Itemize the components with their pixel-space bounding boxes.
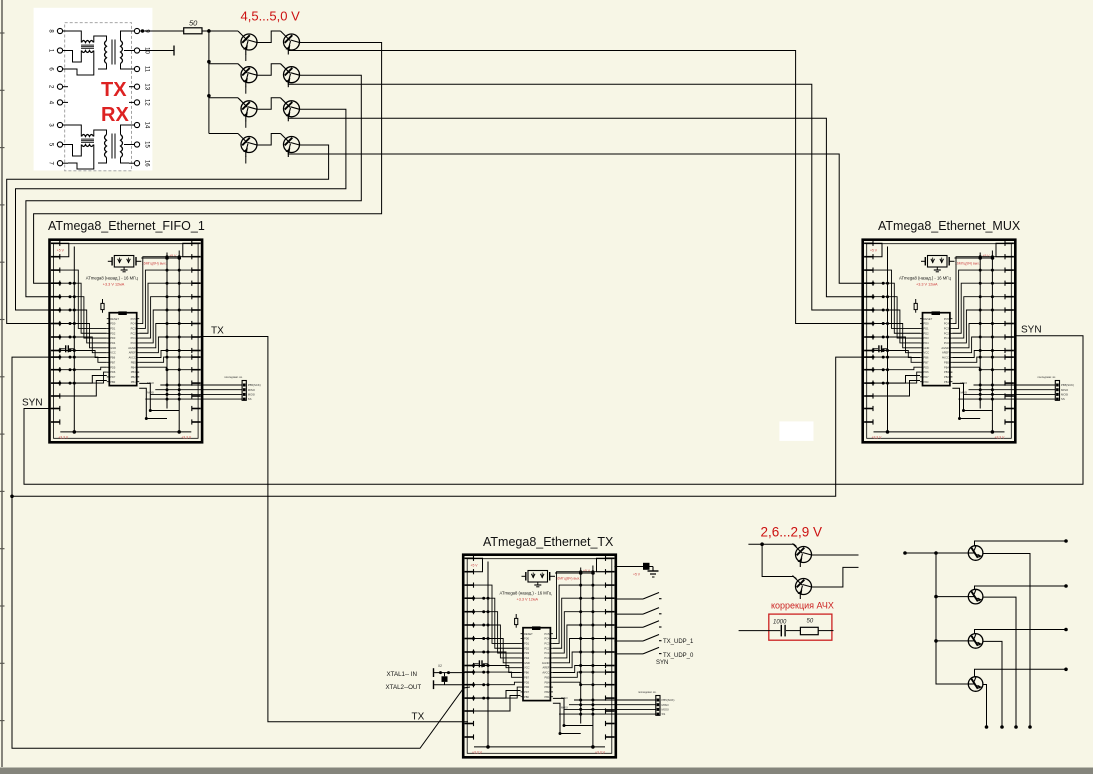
- wire pin9 to resistor: [140, 29, 184, 32]
- wire feed row 4: [209, 133, 238, 135]
- transformer coils: [105, 134, 123, 159]
- wire pair link row 1: [257, 31, 281, 43]
- transistor Q14: [968, 677, 983, 692]
- svg-text:RX: RX: [101, 104, 129, 126]
- switch S1: [614, 593, 661, 600]
- transformer wiring: [68, 31, 129, 75]
- svg-text:13: 13: [144, 83, 150, 90]
- TX reset button + ground: [614, 563, 658, 577]
- wire row 3 to MUX: [288, 117, 870, 297]
- svg-text:коррекция АЧХ: коррекция АЧХ: [771, 601, 834, 611]
- wire collector Q11: [975, 539, 1068, 546]
- transistor Q13: [968, 634, 983, 649]
- svg-text:4,5...5,0 V: 4,5...5,0 V: [241, 9, 301, 24]
- sheet frame left border: [0, 0, 5, 767]
- svg-text:TX: TX: [101, 79, 127, 101]
- resistor R2: [800, 627, 818, 634]
- transformer coils: [105, 40, 123, 65]
- net SYN1 FIFO to MUX: [24, 336, 1083, 485]
- label 50 R2: [807, 619, 814, 625]
- module ATmega8_Ethernet_FIFO_1: [48, 219, 261, 442]
- label 1000: [773, 620, 787, 626]
- wire base Q13: [936, 640, 968, 642]
- wire feed row 3: [209, 97, 238, 99]
- wire cap to resistor: [786, 630, 800, 632]
- switch S3: [614, 621, 661, 628]
- label SYN at FIFO: [22, 398, 43, 409]
- transistor Q2: [281, 31, 300, 55]
- wire resistor to node: [202, 30, 209, 32]
- transformer pin numbers right: [144, 29, 150, 167]
- label XTAL2 OUT: [386, 684, 422, 691]
- wire out of box: [818, 630, 833, 632]
- bottom scrollbar: [0, 768, 1093, 774]
- svg-text:+5 V: +5 V: [633, 573, 641, 577]
- svg-text:15: 15: [144, 141, 150, 148]
- svg-text:TX: TX: [412, 712, 425, 723]
- svg-text:1000: 1000: [773, 620, 787, 626]
- svg-text:16: 16: [144, 160, 150, 167]
- resistor R1: [184, 28, 202, 34]
- correction box (red): [769, 614, 832, 640]
- wire pair link row 2: [257, 64, 281, 75]
- transistor Q3: [238, 64, 257, 94]
- svg-text:11: 11: [144, 66, 150, 73]
- module ATmega8_Ethernet_MUX: [863, 219, 1074, 442]
- svg-text:SYN: SYN: [1021, 325, 1042, 336]
- label TX_UDP_0: [663, 653, 694, 659]
- no-connect stub pin 10: [140, 46, 174, 56]
- switch S4: [614, 635, 661, 642]
- svg-text:2,6...2,9 V: 2,6...2,9 V: [761, 525, 823, 540]
- transformer wiring: [68, 125, 129, 169]
- label TX at TX module: [412, 712, 425, 723]
- switch S5: [614, 647, 661, 654]
- transistor Q12: [968, 589, 983, 604]
- common-mode choke: [81, 135, 94, 147]
- wire row 4 to FIFO: [7, 145, 329, 324]
- wire base Q11: [936, 552, 968, 554]
- capacitor C2: [781, 625, 785, 637]
- label SYN at TX: [656, 660, 668, 666]
- base bus vertical: [934, 551, 968, 684]
- wire row 2 to MUX: [288, 83, 870, 310]
- svg-text:X2: X2: [438, 664, 442, 668]
- crystal X2 circuit: [434, 664, 466, 689]
- svg-text:XTAL2--OUT: XTAL2--OUT: [386, 684, 422, 691]
- transistor Q5: [238, 98, 257, 128]
- label RX (red): [101, 104, 129, 126]
- transformer pin numbers left: [48, 29, 54, 165]
- input stub with dot: [903, 551, 936, 555]
- transistor Q6: [281, 98, 300, 122]
- label TX (red): [101, 79, 127, 101]
- svg-text:SYN: SYN: [656, 660, 668, 666]
- svg-text:50: 50: [807, 619, 814, 625]
- wire row 2 to FIFO: [26, 75, 361, 297]
- wire Q9 output: [812, 554, 859, 556]
- svg-text:TX_UDP_0: TX_UDP_0: [663, 653, 694, 659]
- svg-text:ATmega8_Ethernet_MUX: ATmega8_Ethernet_MUX: [878, 219, 1021, 233]
- label TX_UDP_1: [663, 639, 694, 645]
- wire pair link row 3: [257, 98, 281, 110]
- label XTAL1 IN: [387, 671, 417, 678]
- wire Q10 output: [812, 567, 859, 587]
- wire into box: [739, 630, 781, 632]
- wire feed Q10: [762, 544, 796, 578]
- transistor Q7: [238, 134, 257, 164]
- svg-text:SYN: SYN: [22, 398, 43, 409]
- net TX FIFO to TX module: [200, 337, 468, 722]
- transistor Q9: [793, 544, 812, 568]
- label 4,5...5,0 V (red): [241, 9, 301, 24]
- supply bus vertical: [207, 29, 211, 134]
- ethernet transformer T1 dashed box: [65, 23, 132, 171]
- white patch near MUX bottom: [779, 421, 813, 441]
- svg-text:14: 14: [144, 122, 150, 129]
- switch S2: [614, 608, 661, 615]
- wire row 1 to FIFO: [34, 43, 382, 284]
- wire base Q12: [936, 596, 968, 598]
- wire feed row 2: [209, 63, 238, 65]
- transistor Q4: [281, 64, 300, 88]
- svg-text:50: 50: [189, 19, 198, 28]
- wire collector Q12: [975, 584, 1068, 589]
- label 50: [189, 19, 198, 28]
- wire row 4 to MUX: [288, 153, 870, 284]
- wire collector Q13: [975, 628, 1068, 634]
- net SYN2 FIFO/MUX/TX: [10, 357, 870, 748]
- transistor Q8: [281, 134, 300, 158]
- svg-text:TX_UDP_1: TX_UDP_1: [663, 639, 694, 645]
- common-mode choke: [81, 41, 94, 53]
- svg-text:ATmega8_Ethernet_FIFO_1: ATmega8_Ethernet_FIFO_1: [48, 219, 205, 233]
- svg-text:XTAL1-- IN: XTAL1-- IN: [387, 671, 417, 678]
- wire emitter Q11: [983, 554, 1032, 729]
- white patch behind transformer: [34, 8, 153, 171]
- wire collector Q14: [975, 668, 1068, 677]
- wire feed Q9: [748, 542, 796, 546]
- label SYN at MUX: [1021, 325, 1042, 336]
- transistor Q11: [968, 546, 983, 561]
- transformer left pins: [57, 28, 68, 165]
- label correction AFC (red): [771, 601, 834, 611]
- transformer right pins: [129, 28, 140, 165]
- label TX at FIFO: [211, 326, 224, 337]
- wire emitter Q13: [983, 641, 1004, 728]
- wire emitter Q14: [983, 685, 988, 729]
- wire feed row 1: [209, 30, 238, 32]
- module ATmega8_Ethernet_TX: [463, 535, 674, 757]
- wire pair link row 4: [257, 134, 281, 146]
- svg-text:12: 12: [144, 99, 150, 106]
- transistor Q10: [793, 576, 812, 600]
- wire row 3 to FIFO: [16, 109, 346, 310]
- svg-text:ATmega8_Ethernet_TX: ATmega8_Ethernet_TX: [483, 535, 614, 549]
- label 2,6...2,9 V (red): [761, 525, 823, 540]
- transistor Q1: [238, 31, 257, 61]
- svg-text:TX: TX: [211, 326, 224, 337]
- wire row 1 to MUX: [288, 50, 870, 324]
- wire emitter Q12: [983, 597, 1018, 729]
